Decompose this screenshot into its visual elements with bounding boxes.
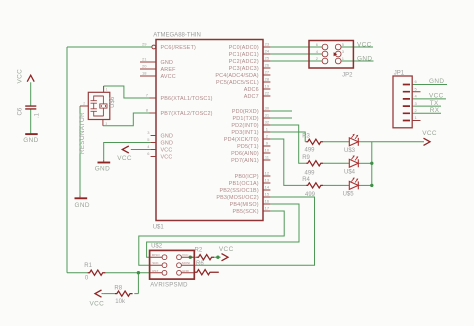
svg-text:12: 12: [265, 171, 270, 176]
svg-text:PC4(ADC4/SDA): PC4(ADC4/SDA): [215, 73, 258, 79]
wire AVRISP VCC to R2: [190, 256, 220, 258]
svg-text:26: 26: [265, 63, 270, 68]
wire resonator pin2 to GND: [79, 106, 81, 195]
svg-text:U$5: U$5: [343, 191, 355, 197]
node LED row2 junction: [370, 162, 373, 165]
svg-text:28: 28: [265, 77, 270, 82]
svg-text:VCC: VCC: [422, 130, 437, 137]
wire R9 to LED U$4: [322, 162, 349, 164]
resonator pin stubs: [80, 86, 104, 126]
svg-text:R1: R1: [84, 263, 92, 269]
wire RESET top from loop to pin29 bubble: [67, 46, 152, 48]
pin stubs left GND/AREF/AVCC: [140, 62, 156, 76]
svg-text:VCC: VCC: [90, 300, 105, 307]
svg-text:.1: .1: [35, 112, 41, 118]
resistor R8: [115, 291, 133, 296]
resistor R1: [88, 270, 106, 275]
wire RESET bottom row to R1 and AVRISP RST: [67, 272, 150, 274]
wire INT1 to R3: [270, 132, 306, 142]
svg-text:499: 499: [305, 170, 316, 176]
supply VCC arrow left (R8): [95, 290, 102, 297]
supply VCC arrow up (C6 branch): [27, 75, 34, 82]
wire R4 to LED U$5: [322, 184, 349, 186]
svg-text:17: 17: [265, 206, 270, 211]
svg-text:R3: R3: [302, 134, 310, 140]
wire LED U$5 out: [359, 184, 372, 186]
wire TXD stub: [270, 117, 292, 119]
capacitor C6 plates: [25, 106, 36, 109]
svg-text:499: 499: [305, 147, 316, 153]
svg-text:14: 14: [265, 185, 270, 190]
svg-text:10k: 10k: [115, 299, 126, 305]
svg-text:U$1: U$1: [153, 224, 165, 230]
svg-text:PD5(T1): PD5(T1): [237, 144, 259, 150]
svg-text:29: 29: [142, 42, 147, 47]
wire INT0 to R9: [270, 125, 306, 163]
wire JP1 pin4 VCC: [412, 98, 446, 100]
wire JP1 pin3 TX: [412, 105, 441, 107]
svg-text:PD4(XCK/T0): PD4(XCK/T0): [224, 137, 259, 143]
connector JP2 pin numbers: [316, 42, 345, 61]
svg-text:PD1(TXD): PD1(TXD): [232, 116, 258, 122]
connector JP2 pin arrow: [334, 52, 338, 56]
svg-text:20: 20: [142, 64, 147, 69]
pin PC6/RESET bubble: [152, 45, 156, 49]
svg-text:3: 3: [105, 122, 107, 126]
svg-text:U$3: U$3: [344, 148, 356, 154]
resonator U$6 body: [88, 92, 110, 119]
svg-text:VCC: VCC: [219, 246, 234, 253]
resistor R3: [306, 139, 323, 144]
wire PC2 to JP2: [270, 60, 322, 62]
svg-text:RST: RST: [152, 269, 158, 273]
svg-text:PB1(OC1A): PB1(OC1A): [229, 181, 259, 187]
svg-text:ADC6: ADC6: [244, 87, 259, 93]
node AVRISP VCC pin dot: [189, 256, 192, 259]
LED U$4: [349, 159, 358, 167]
wire JP2 VCC: [341, 46, 373, 48]
svg-text:GND: GND: [429, 78, 444, 85]
svg-text:10: 10: [265, 148, 270, 153]
svg-text:27: 27: [265, 70, 270, 75]
wire LED U$4 out: [359, 162, 372, 164]
wire R3 to LED U$3: [322, 141, 349, 143]
svg-text:15: 15: [265, 192, 270, 197]
LED U$5 emission arrows: [351, 177, 358, 182]
LED U$4 emission arrows: [351, 155, 358, 160]
svg-text:GND: GND: [161, 140, 174, 146]
node LED row3 junction: [370, 184, 373, 187]
connector JP1 pin numbers: [415, 79, 418, 120]
svg-text:TX: TX: [430, 100, 439, 107]
connector U$2 pin stubs: [150, 257, 195, 273]
svg-text:GND: GND: [95, 166, 110, 173]
node RESET junction: [137, 271, 140, 274]
svg-text:16: 16: [265, 199, 270, 204]
svg-text:24: 24: [265, 49, 270, 54]
connector U$2 AVRISP body: [150, 250, 195, 279]
svg-text:PC0(ADC0): PC0(ADC0): [229, 45, 259, 51]
svg-text:18: 18: [142, 71, 147, 76]
svg-text:VCC: VCC: [17, 69, 24, 84]
wire resonator pin3 to XTAL2: [103, 113, 150, 126]
connector U$2 pin labels: [152, 253, 190, 273]
svg-text:U$4: U$4: [344, 169, 356, 175]
op IC U$1 ATMEGA88 body: [156, 40, 263, 221]
pin stubs right PD block: [263, 111, 270, 160]
svg-text:R9: R9: [302, 155, 310, 161]
svg-text:VCC: VCC: [357, 41, 372, 48]
svg-text:ADC7: ADC7: [244, 94, 259, 100]
IC pin names left: [161, 45, 213, 161]
pin stubs left power: [151, 136, 156, 157]
wire MISO PB4 to AVRISP: [147, 204, 299, 257]
wire VCC pin4: [131, 149, 151, 151]
wire RESET left vertical: [66, 47, 68, 273]
svg-text:PD7(AIN1): PD7(AIN1): [231, 158, 259, 164]
wire PC0 to JP2: [270, 46, 322, 48]
IC pin numbers left: [142, 42, 150, 157]
svg-text:GND: GND: [161, 133, 174, 139]
connector JP2 body: [309, 41, 353, 69]
connector JP1 body: [393, 76, 412, 128]
svg-text:C6: C6: [18, 107, 24, 115]
LED U$3: [349, 138, 358, 146]
svg-text:PB2(SS/OC1B): PB2(SS/OC1B): [219, 188, 258, 194]
wire JP1 pin6 GND: [412, 84, 447, 86]
pin stubs right PB block: [263, 176, 270, 211]
svg-text:R6: R6: [196, 261, 204, 267]
svg-text:13: 13: [265, 178, 270, 183]
supply VCC arrow left (pin4): [122, 146, 129, 153]
svg-text:GND: GND: [161, 60, 174, 66]
svg-text:R8: R8: [114, 286, 122, 292]
svg-text:PD3(INT1): PD3(INT1): [231, 130, 258, 136]
svg-text:GND: GND: [23, 137, 38, 144]
svg-text:MISO: MISO: [152, 253, 161, 257]
svg-text:30: 30: [265, 106, 270, 111]
ground GND symbol (C6): [25, 133, 38, 135]
svg-text:ATMEGA88-THIN: ATMEGA88-THIN: [153, 33, 201, 39]
svg-text:PB0(ICP): PB0(ICP): [235, 174, 259, 180]
svg-text:PC1(ADC1): PC1(ADC1): [229, 52, 259, 58]
svg-text:PD0(RXD): PD0(RXD): [232, 109, 259, 115]
wire LED U$3 to VCC arrow: [359, 141, 424, 143]
wire JP1 pin2 RX: [412, 112, 441, 114]
svg-text:VCC: VCC: [161, 147, 173, 153]
svg-text:VCC: VCC: [161, 154, 173, 160]
svg-text:VCC: VCC: [182, 253, 189, 257]
svg-text:31: 31: [265, 113, 270, 118]
svg-text:VCC: VCC: [117, 155, 132, 162]
svg-text:RX: RX: [430, 107, 440, 114]
svg-text:19: 19: [265, 84, 270, 89]
resistor R9: [306, 161, 323, 166]
resonator internals: [91, 96, 108, 116]
svg-text:PD6(AIN0): PD6(AIN0): [231, 151, 259, 157]
IC pin numbers right: [265, 42, 270, 211]
pin stubs left XTAL: [149, 98, 156, 113]
resonator pin numbers: [83, 88, 108, 127]
svg-text:22: 22: [265, 91, 270, 96]
IC pin names right PD: [224, 109, 259, 164]
wire T0 to R4: [270, 139, 306, 185]
wire C6 to GND: [30, 109, 32, 133]
svg-text:GND: GND: [182, 269, 190, 273]
connector JP2 pin circles: [322, 44, 341, 64]
svg-text:U$6: U$6: [110, 96, 116, 108]
svg-text:23: 23: [265, 42, 270, 47]
wire GND pin5 to ground: [104, 143, 151, 160]
svg-text:RESONATOR: RESONATOR: [80, 112, 86, 154]
supply VCC arrow right (LED row): [424, 138, 431, 145]
svg-text:MOSI: MOSI: [182, 261, 190, 265]
wire resonator pin1 to XTAL1: [104, 86, 150, 98]
ground GND symbol (pin5): [98, 162, 111, 164]
svg-text:PB4(MISO): PB4(MISO): [230, 202, 259, 208]
LED U$3 emission arrows: [351, 134, 358, 139]
wire VCC to C6: [30, 82, 32, 106]
svg-text:PB3(MOSI/OC2): PB3(MOSI/OC2): [216, 195, 259, 201]
svg-text:JP2: JP2: [342, 72, 353, 78]
ground GND symbol (resonator): [75, 197, 88, 199]
LED U$5: [349, 181, 358, 189]
svg-text:AREF: AREF: [161, 67, 177, 73]
wire MOSI PB3 to AVRISP: [194, 197, 314, 265]
svg-text:2: 2: [83, 102, 85, 106]
svg-text:25: 25: [265, 56, 270, 61]
svg-text:PB7(XTAL2/TOSC2): PB7(XTAL2/TOSC2): [161, 111, 213, 117]
wire SCK PB5 to AVRISP: [139, 211, 284, 265]
pin stubs right PC block: [263, 47, 270, 96]
svg-text:499: 499: [305, 192, 316, 198]
svg-text:PB5(SCK): PB5(SCK): [232, 209, 258, 215]
svg-text:GND: GND: [75, 202, 90, 209]
resistor R6: [194, 270, 219, 275]
wire LED column vertical: [371, 142, 373, 186]
resistor R4: [306, 183, 323, 188]
svg-text:PC2(ADC2): PC2(ADC2): [229, 59, 259, 65]
svg-text:21: 21: [142, 57, 147, 62]
svg-text:R2: R2: [195, 247, 203, 253]
svg-text:R4: R4: [302, 177, 310, 183]
svg-text:GND: GND: [357, 55, 372, 62]
svg-text:PC3(ADC3): PC3(ADC3): [229, 66, 259, 72]
connector U$2 pin circles: [162, 255, 181, 275]
svg-text:AVCC: AVCC: [161, 74, 176, 80]
wire RESET pullup branch down to R8: [103, 273, 138, 294]
svg-text:SCK: SCK: [152, 261, 159, 265]
resistor R2: [197, 255, 215, 260]
wire JP2 GND: [341, 60, 374, 62]
svg-text:JP1: JP1: [394, 70, 405, 76]
svg-text:32: 32: [265, 120, 270, 125]
svg-text:PC5(ADC5/SCL): PC5(ADC5/SCL): [216, 80, 259, 86]
svg-text:AVRISPSMD: AVRISPSMD: [150, 283, 188, 289]
wire RXD stub: [270, 110, 292, 112]
svg-text:PD2(INT0): PD2(INT0): [231, 123, 258, 129]
svg-text:U$2: U$2: [151, 243, 163, 249]
svg-text:PB6(XTAL1/TOSC1): PB6(XTAL1/TOSC1): [161, 96, 213, 102]
IC pin names right PB: [216, 174, 259, 215]
svg-text:1: 1: [106, 88, 108, 92]
supply VCC arrow right (R2): [222, 254, 229, 261]
connector JP1 pin dashes: [403, 85, 410, 121]
IC pin names right PC: [215, 45, 258, 100]
node R2 output dot: [216, 256, 219, 259]
svg-text:VCC: VCC: [429, 93, 444, 100]
svg-text:PC6(/RESET): PC6(/RESET): [161, 45, 197, 51]
connector JP1 pin stubs: [412, 92, 420, 121]
wire PC1 to JP2: [270, 53, 322, 55]
